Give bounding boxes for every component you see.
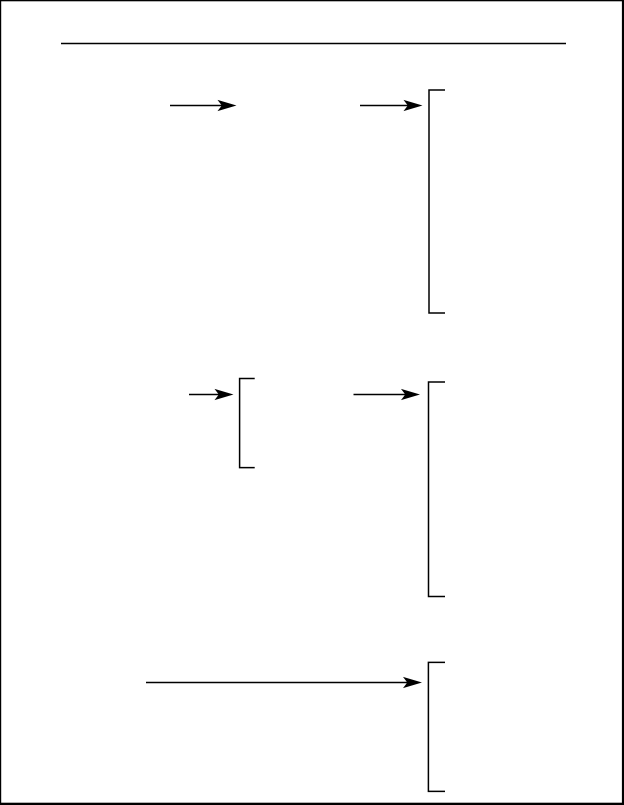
arrow 5	[146, 677, 422, 688]
arrow 2	[360, 100, 423, 111]
arrow 3	[189, 389, 234, 400]
bracket 2	[240, 379, 255, 468]
arrow 4	[354, 389, 421, 400]
bracket 4	[428, 662, 445, 791]
arrow 1	[170, 100, 237, 111]
bracket 3	[429, 382, 446, 597]
header rule	[61, 43, 566, 45]
bracket 1	[429, 90, 445, 313]
